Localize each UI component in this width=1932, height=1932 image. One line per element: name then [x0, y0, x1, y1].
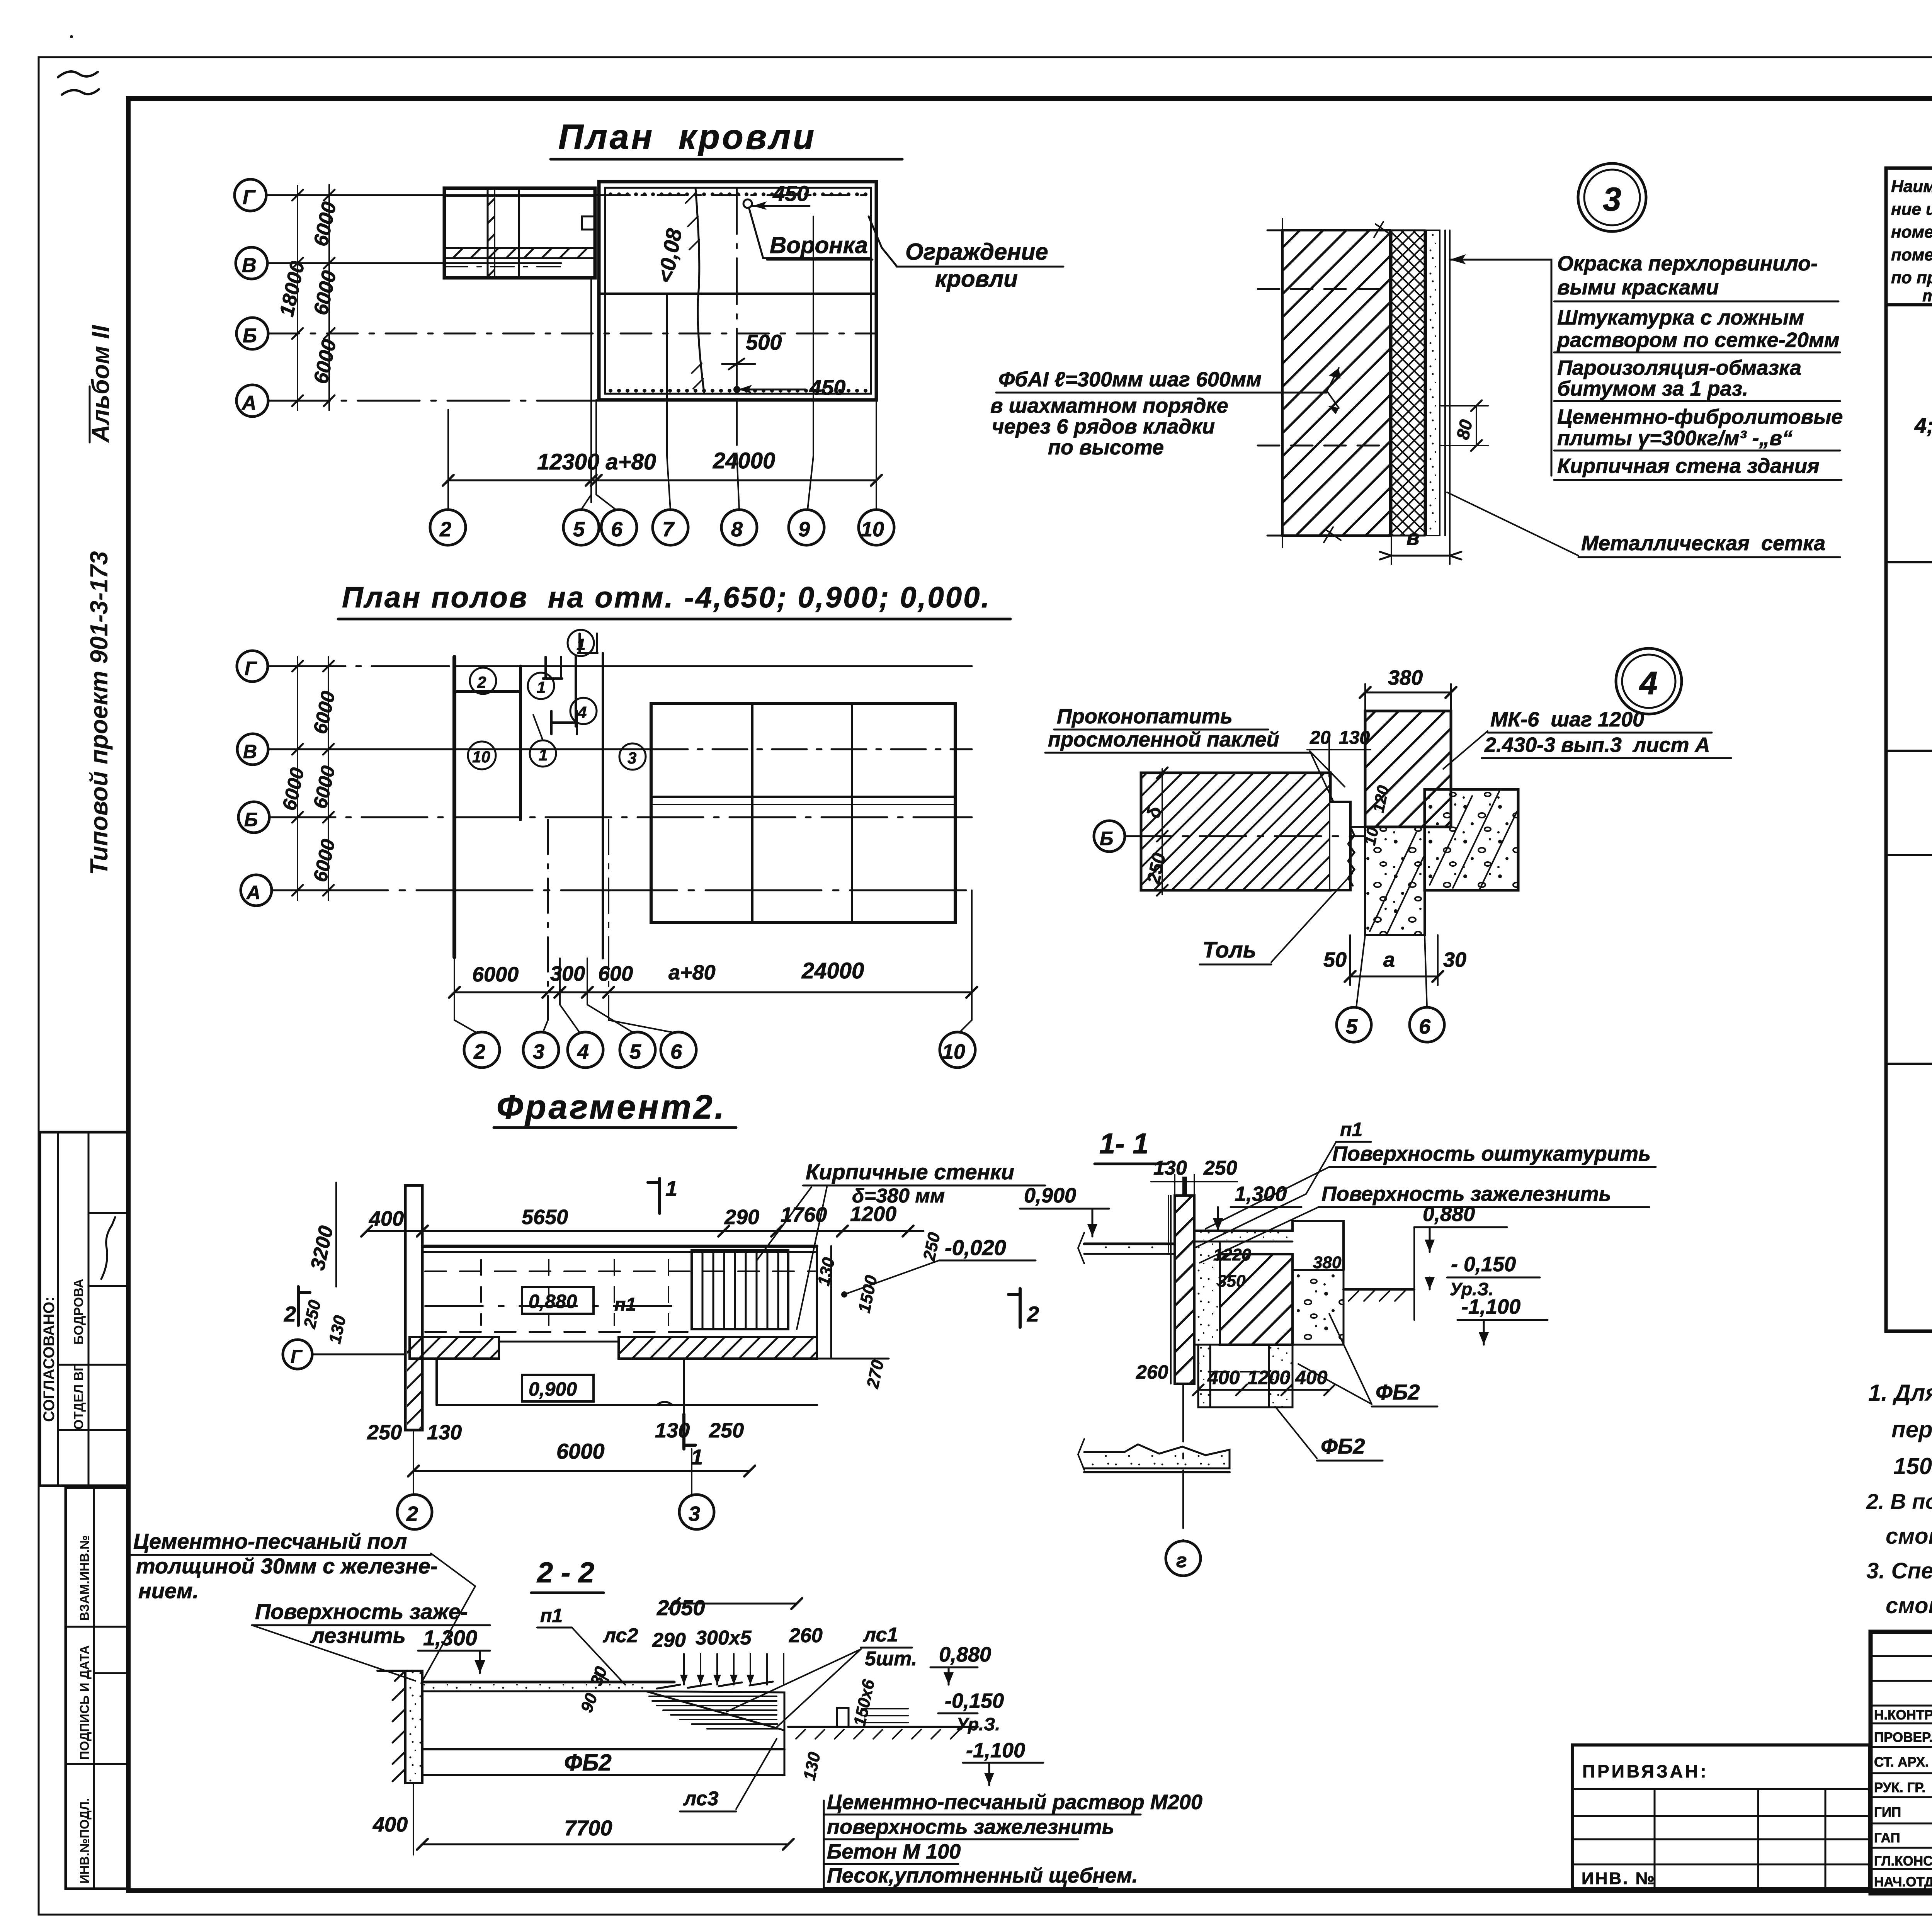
svg-text:2: 2	[477, 673, 486, 691]
svg-text:Ур.З.: Ур.З.	[956, 1714, 1000, 1734]
svg-text:130: 130	[427, 1421, 462, 1444]
svg-text:6000: 6000	[556, 1439, 605, 1463]
svg-text:лс2: лс2	[602, 1624, 638, 1647]
svg-text:ИНВ. №: ИНВ. №	[1582, 1869, 1656, 1888]
svg-text:30: 30	[1443, 948, 1466, 971]
svg-text:5650: 5650	[522, 1206, 568, 1229]
svg-text:Цементно-песчаный раствор М200: Цементно-песчаный раствор М200	[827, 1791, 1202, 1814]
svg-text:ГИП: ГИП	[1874, 1805, 1901, 1820]
svg-text:раствором по сетке-20мм: раствором по сетке-20мм	[1556, 328, 1840, 352]
svg-text:24000: 24000	[713, 448, 775, 473]
svg-text:7: 7	[662, 518, 675, 541]
caulk zigzag seam	[1348, 827, 1354, 886]
svg-text:1: 1	[537, 678, 546, 696]
svg-text:6000: 6000	[309, 837, 339, 884]
svg-text:6000: 6000	[310, 200, 341, 248]
section mark 1 top	[648, 1179, 660, 1213]
svg-text:Г: Г	[291, 1347, 303, 1367]
svg-text:-1,100: -1,100	[1461, 1295, 1520, 1318]
svg-text:Кирпичная стена здания: Кирпичная стена здания	[1557, 454, 1820, 478]
svg-text:поверхность зажелезнить: поверхность зажелезнить	[827, 1815, 1114, 1838]
svg-text:лс3: лс3	[683, 1787, 719, 1810]
center axis to circle г	[1182, 1384, 1184, 1541]
svg-text:2: 2	[439, 518, 451, 541]
axis circle В	[236, 247, 267, 279]
detail circle 3	[1578, 163, 1646, 231]
svg-text:1: 1	[665, 1176, 677, 1201]
axis leaders and circles 5 6	[1356, 935, 1365, 1007]
svg-text:<0,08: <0,08	[653, 226, 687, 285]
svg-text:δ=380 мм: δ=380 мм	[852, 1185, 945, 1207]
svg-text:260: 260	[1136, 1361, 1168, 1383]
dashed axis across slab	[1125, 835, 1365, 837]
svg-text:БОДРОВА: БОДРОВА	[71, 1279, 86, 1345]
small wall top piece	[1182, 1177, 1187, 1196]
axis dash line	[1282, 219, 1283, 547]
svg-text:Б: Б	[243, 325, 257, 347]
svg-text:ИНВ.№ПОДЛ.: ИНВ.№ПОДЛ.	[77, 1798, 92, 1884]
svg-text:Альбом II: Альбом II	[87, 325, 114, 443]
inner vertical wall	[519, 666, 522, 820]
svg-text:Металлическая сетка: Металлическая сетка	[1581, 532, 1825, 555]
svg-text:В: В	[243, 741, 257, 762]
role names	[1874, 1708, 1932, 1889]
brick wall hatched	[1282, 230, 1390, 536]
outer box	[1871, 1632, 1932, 1893]
annotation bracket	[1450, 260, 1551, 476]
ПРИВЯЗАН table	[1572, 1745, 1869, 1889]
svg-text:Пароизоляция-обмазка: Пароизоляция-обмазка	[1557, 356, 1801, 379]
stamp block СОГЛАСОВАНО	[40, 1132, 128, 1486]
svg-text:Ограждение: Ограждение	[905, 239, 1048, 265]
svg-text:6000: 6000	[310, 337, 341, 386]
svg-text:6000: 6000	[472, 963, 519, 986]
svg-text:в шахматном порядке: в шахматном порядке	[990, 394, 1228, 417]
svg-text:Цементно-песчаный пол: Цементно-песчаный пол	[133, 1529, 407, 1553]
axis line Б	[268, 333, 876, 335]
svg-text:2.430-3 вып.3 лист А: 2.430-3 вып.3 лист А	[1484, 733, 1710, 757]
svg-text:4: 4	[577, 703, 587, 721]
svg-text:250: 250	[920, 1231, 944, 1263]
circled numbers on plan	[470, 668, 496, 694]
inner corridor walls	[575, 657, 577, 726]
svg-text:ФбАI ℓ=300мм шаг 600мм: ФбАI ℓ=300мм шаг 600мм	[998, 368, 1262, 391]
svg-text:150 мм, шириной 1500мм в при: 150 мм, шириной 1500мм в пристройке межд…	[1893, 1453, 1932, 1479]
svg-text:0,880: 0,880	[939, 1643, 991, 1666]
brick pier hatched	[1220, 1254, 1293, 1345]
svg-text:нием.: нием.	[138, 1578, 199, 1603]
svg-text:Толь: Толь	[1202, 937, 1256, 963]
svg-text:5: 5	[629, 1040, 641, 1063]
svg-text:Поверхность заже-: Поверхность заже-	[255, 1599, 468, 1624]
svg-text:130: 130	[1153, 1157, 1187, 1179]
svg-text:В: В	[242, 254, 257, 277]
svg-text:3: 3	[533, 1040, 544, 1063]
axis circle А	[241, 875, 272, 906]
svg-text:а: а	[1383, 948, 1395, 971]
foundation legs	[1198, 1345, 1210, 1407]
svg-text:Б: Б	[1100, 828, 1113, 849]
svg-text:8: 8	[731, 518, 743, 541]
axis circle Г	[235, 179, 266, 211]
svg-text:2: 2	[406, 1502, 418, 1526]
wall hatched	[1175, 1196, 1194, 1384]
svg-text:2 - 2: 2 - 2	[536, 1556, 594, 1588]
svg-text:1: 1	[691, 1445, 703, 1469]
floor slab	[422, 1681, 674, 1684]
svg-text:6: 6	[611, 518, 623, 541]
right ground line	[788, 1726, 978, 1728]
left dim verticals	[297, 657, 298, 900]
svg-text:250: 250	[300, 1298, 325, 1330]
axis circle Б	[238, 802, 269, 833]
svg-text:300: 300	[550, 962, 585, 985]
axis line А	[268, 400, 876, 402]
left floor	[1084, 1243, 1175, 1245]
svg-text:3: 3	[689, 1502, 700, 1526]
svg-text:2: 2	[473, 1040, 485, 1063]
svg-text:Песок,уплотненный щебнем.: Песок,уплотненный щебнем.	[827, 1864, 1138, 1887]
svg-text:1,300: 1,300	[1235, 1182, 1287, 1206]
svg-text:4: 4	[1639, 665, 1658, 701]
svg-text:5: 5	[573, 518, 585, 541]
signature squiggle	[101, 1217, 115, 1279]
svg-text:просмоленной паклей: просмоленной паклей	[1048, 728, 1279, 751]
left main wall	[452, 657, 456, 957]
axis line В	[267, 262, 561, 264]
svg-text:6: 6	[1419, 1015, 1431, 1038]
small ledge on left block	[582, 216, 595, 230]
ridge line	[599, 293, 876, 295]
lower column concrete	[1365, 827, 1425, 935]
svg-text:ПРИВЯЗАН:: ПРИВЯЗАН:	[1582, 1761, 1709, 1781]
svg-text:ФБ2: ФБ2	[1321, 1434, 1365, 1458]
svg-text:24000: 24000	[801, 958, 864, 983]
svg-text:лезнить: лезнить	[310, 1623, 406, 1648]
svg-text:2: 2	[1027, 1302, 1039, 1326]
svg-text:0,900: 0,900	[529, 1378, 577, 1400]
axis circle В	[237, 734, 268, 765]
svg-text:5: 5	[1346, 1015, 1358, 1038]
svg-text:Н.КОНТР.: Н.КОНТР.	[1874, 1708, 1932, 1723]
svg-text:ние или: ние или	[1891, 200, 1932, 219]
top wall strip hatched	[1365, 711, 1451, 827]
svg-text:Фрагмент2.: Фрагмент2.	[497, 1088, 726, 1126]
svg-text:номер: номер	[1891, 223, 1932, 241]
svg-text:смотреть на листе АС-7.: смотреть на листе АС-7.	[1886, 1593, 1932, 1618]
svg-text:0,900: 0,900	[1024, 1184, 1076, 1207]
tick row for steps	[684, 1654, 784, 1685]
svg-text:400: 400	[369, 1207, 404, 1230]
svg-text:9: 9	[798, 518, 810, 541]
svg-text:250: 250	[1203, 1157, 1237, 1179]
svg-text:битумом за 1 раз.: битумом за 1 раз.	[1557, 377, 1748, 400]
axis circle Б	[236, 318, 268, 349]
axis circle Г	[283, 1340, 312, 1369]
svg-text:0,880: 0,880	[1423, 1202, 1475, 1226]
ticks on dim verticals	[292, 190, 303, 406]
80 dim	[1476, 406, 1477, 446]
svg-text:3200: 3200	[306, 1224, 338, 1272]
svg-text:12300 а+80: 12300 а+80	[537, 449, 656, 474]
svg-text:50: 50	[1323, 948, 1347, 971]
svg-text:1500: 1500	[855, 1274, 881, 1315]
svg-text:ПРОВЕР.: ПРОВЕР.	[1874, 1730, 1932, 1745]
bottom footing	[1084, 1444, 1230, 1468]
left wall of fragment	[405, 1185, 422, 1430]
left rows	[1871, 1655, 1932, 1657]
svg-text:п1: п1	[614, 1294, 636, 1315]
svg-text:450: 450	[809, 375, 845, 400]
svg-text:500: 500	[746, 330, 782, 354]
left block inner walls	[487, 188, 489, 278]
axis lines	[268, 665, 454, 667]
svg-text:плиты γ=300кг/м³ -„в“: плиты γ=300кг/м³ -„в“	[1557, 427, 1793, 450]
3200 dim	[335, 1182, 337, 1287]
svg-text:6: 6	[670, 1040, 682, 1063]
svg-text:2. В помещениях насосного отде: 2. В помещениях насосного отделения и ос…	[1866, 1489, 1932, 1514]
svg-text:Цементно-фибролитовые: Цементно-фибролитовые	[1557, 405, 1843, 429]
dashed ties in wall	[1258, 288, 1391, 290]
floor hatched band	[410, 1337, 499, 1359]
svg-text:кровли: кровли	[935, 266, 1018, 292]
svg-text:РУК. ГР.: РУК. ГР.	[1874, 1780, 1925, 1795]
dim 450 top	[753, 205, 810, 207]
top dim line	[367, 1230, 923, 1232]
svg-text:6000: 6000	[310, 269, 341, 317]
delta and 250 rotated dims	[1162, 769, 1163, 895]
axis line Г	[266, 194, 603, 196]
svg-text:помещения: помещения	[1891, 245, 1932, 264]
svg-text:НАЧ.ОТД: НАЧ.ОТД	[1874, 1874, 1932, 1889]
top wall segment	[454, 690, 520, 693]
svg-text:ОТДЕЛ ВГ: ОТДЕЛ ВГ	[71, 1364, 86, 1430]
svg-text:толщиной 30мм с железне-: толщиной 30мм с железне-	[136, 1554, 437, 1578]
dashed underground part	[1293, 1289, 1344, 1345]
ФБ2 beam	[422, 1748, 784, 1750]
dim 450 bottom	[738, 389, 806, 391]
svg-text:Штукатурка с ложным: Штукатурка с ложным	[1557, 306, 1804, 329]
svg-text:выми красками: выми красками	[1557, 276, 1719, 299]
svg-text:п1: п1	[540, 1605, 563, 1626]
svg-text:1- 1: 1- 1	[1099, 1128, 1149, 1160]
svg-text:ФБ2: ФБ2	[1376, 1380, 1420, 1404]
svg-text:400: 400	[1207, 1367, 1240, 1388]
parapet dot rows	[609, 192, 867, 393]
svg-text:1200: 1200	[1247, 1367, 1290, 1388]
svg-text:-1,100: -1,100	[966, 1739, 1025, 1762]
dim verticals 18000 / 6000	[297, 185, 298, 410]
svg-text:а+80: а+80	[668, 961, 716, 984]
svg-text:380: 380	[1388, 666, 1423, 689]
svg-text:смотреть уклоны полов в соо: смотреть уклоны полов в соответствии с ч…	[1886, 1524, 1932, 1549]
axis circle Б	[1094, 821, 1125, 852]
svg-text:270: 270	[863, 1358, 888, 1390]
svg-text:Типовой проект 901-3-173: Типовой проект 901-3-173	[85, 551, 113, 875]
bottom axis circles	[430, 510, 466, 545]
svg-text:Г: Г	[245, 658, 257, 679]
stepped ramp wedge	[646, 1691, 784, 1730]
plaster dotted strip	[1426, 230, 1440, 536]
svg-text:10: 10	[1361, 825, 1382, 847]
top/bottom edge ticks	[1267, 230, 1399, 536]
svg-text:г: г	[1176, 1549, 1187, 1572]
svg-text:3: 3	[628, 749, 636, 767]
svg-text:1. Для утепления пола с Внутре: 1. Для утепления пола с Внутренней сторо…	[1868, 1380, 1932, 1406]
svg-text:Наименова: Наименова	[1891, 177, 1932, 196]
svg-text:Поверхность оштукатурить: Поверхность оштукатурить	[1332, 1142, 1651, 1165]
svg-text:ПОДПИСЬ И ДАТА: ПОДПИСЬ И ДАТА	[77, 1645, 92, 1760]
svg-text:ту: ту	[1922, 286, 1932, 305]
svg-text:Окраска перхлорвинило-: Окраска перхлорвинило-	[1557, 252, 1818, 275]
svg-text:400: 400	[372, 1813, 408, 1836]
svg-text:МК-6 шаг 1200: МК-6 шаг 1200	[1490, 708, 1644, 731]
svg-text:450: 450	[772, 181, 809, 206]
section mark 1 bottom	[684, 1414, 696, 1449]
svg-text:План полов на отм. -4,650; 0,: План полов на отм. -4,650; 0,900; 0,000.	[342, 581, 991, 614]
svg-text:Бетон М 100: Бетон М 100	[827, 1840, 961, 1863]
svg-text:ГЛ.КОНСТР: ГЛ.КОНСТР	[1874, 1854, 1932, 1869]
small inner partitions	[551, 711, 577, 734]
section mark 2 left	[298, 1287, 310, 1325]
svg-text:п1: п1	[1340, 1119, 1362, 1140]
svg-text:130: 130	[800, 1750, 824, 1782]
svg-text:290: 290	[724, 1206, 759, 1229]
svg-text:в: в	[1406, 525, 1420, 549]
right upper floor 0,880	[1194, 1221, 1344, 1270]
svg-text:ВЗАМ.ИНВ.№: ВЗАМ.ИНВ.№	[77, 1535, 92, 1621]
7700 dim	[422, 1844, 788, 1845]
svg-text:через 6 рядов кладки: через 6 рядов кладки	[992, 415, 1215, 438]
svg-text:10: 10	[472, 748, 490, 766]
svg-text:2: 2	[284, 1302, 296, 1326]
roof slope line	[696, 188, 704, 392]
svg-text:1: 1	[577, 635, 585, 653]
svg-text:150х6: 150х6	[850, 1678, 878, 1728]
svg-text:1,300: 1,300	[423, 1626, 477, 1650]
door jamb marks top	[546, 634, 597, 679]
leader from circle 1 mid	[533, 715, 543, 740]
svg-text:Кирпичные стенки: Кирпичные стенки	[806, 1160, 1014, 1184]
svg-text:4;5;3: 4;5;3	[1914, 413, 1932, 437]
bottom circles 2 and 3	[413, 1430, 414, 1495]
bottom dim line	[454, 992, 972, 993]
axis circle Г	[237, 651, 268, 682]
svg-text:290: 290	[652, 1629, 686, 1651]
svg-text:80: 80	[1452, 418, 1476, 441]
svg-text:6000: 6000	[309, 689, 339, 736]
lower slab	[435, 1359, 438, 1405]
railing / ladder	[692, 1250, 788, 1329]
svg-text:-0,020: -0,020	[945, 1235, 1006, 1260]
svg-text:Проконопатить: Проконопатить	[1057, 705, 1233, 728]
concrete surround	[1293, 1270, 1344, 1345]
axis circle А	[236, 385, 268, 417]
svg-text:300х5: 300х5	[696, 1627, 752, 1649]
svg-text:3. Спецификацию на ступени, п: 3. Спецификацию на ступени, плиты и фунд…	[1866, 1558, 1932, 1583]
building: left block	[444, 188, 595, 278]
svg-text:Б: Б	[244, 809, 258, 830]
bottom dim 6000	[413, 1470, 750, 1472]
building: right block outer	[599, 182, 876, 400]
hatched band in left block	[444, 248, 595, 258]
table grid	[1886, 168, 1932, 1331]
svg-text:250: 250	[367, 1421, 402, 1444]
funnel Воронка	[743, 199, 752, 208]
svg-text:СТ. АРХ.: СТ. АРХ.	[1874, 1755, 1929, 1770]
svg-text:7700: 7700	[564, 1816, 612, 1840]
svg-text:А: А	[241, 392, 257, 414]
svg-text:периметру предусмотреть засы: периметру предусмотреть засыпку керамзит…	[1891, 1417, 1932, 1442]
svg-text:6000: 6000	[309, 764, 339, 811]
svg-text:План кровли: План кровли	[558, 118, 816, 156]
svg-text:-0,150: -0,150	[945, 1689, 1004, 1713]
bottom dimension line	[448, 480, 876, 481]
svg-text:А: А	[246, 882, 260, 903]
main slab outline	[422, 1245, 817, 1248]
svg-text:260: 260	[789, 1624, 823, 1647]
svg-text:лс1: лс1	[862, 1624, 898, 1646]
svg-text:600: 600	[598, 962, 633, 985]
left slab hatched	[1141, 773, 1330, 890]
svg-text:10: 10	[861, 518, 884, 541]
svg-text:3: 3	[1603, 181, 1621, 218]
svg-text:по высоте: по высоте	[1048, 436, 1164, 459]
svg-text:6000: 6000	[278, 766, 308, 813]
svg-text:- 0,150: - 0,150	[1451, 1253, 1516, 1276]
svg-text:ГАП: ГАП	[1874, 1830, 1900, 1845]
svg-text:СОГЛАСОВАНО:: СОГЛАСОВАНО:	[41, 1296, 58, 1422]
svg-text:250: 250	[709, 1419, 744, 1442]
detail circle 4	[1616, 648, 1682, 714]
corner handwritten mark	[58, 71, 99, 95]
svg-text:5шт.: 5шт.	[865, 1648, 917, 1670]
svg-text:10: 10	[942, 1040, 965, 1063]
svg-text:2050: 2050	[656, 1595, 705, 1620]
svg-text:130: 130	[655, 1419, 690, 1442]
svg-text:Г: Г	[243, 186, 256, 209]
section mark 2 right	[1009, 1289, 1020, 1327]
grid box right	[651, 704, 955, 923]
svg-text:0,880: 0,880	[529, 1291, 577, 1312]
svg-text:Воронка: Воронка	[770, 232, 868, 258]
svg-text:130: 130	[1339, 728, 1370, 748]
0,880 box	[522, 1287, 594, 1314]
svg-text:130: 130	[325, 1314, 350, 1346]
svg-text:по проек-: по проек-	[1891, 268, 1932, 287]
left retaining wall	[405, 1671, 422, 1783]
svg-text:4: 4	[577, 1040, 589, 1063]
fibrolite cross-hatch strip	[1391, 230, 1425, 536]
inner axis verticals	[666, 294, 668, 456]
svg-text:ФБ2: ФБ2	[564, 1750, 612, 1776]
right slab concrete	[1425, 789, 1518, 890]
svg-text:Поверхность зажелезнить: Поверхность зажелезнить	[1321, 1182, 1611, 1206]
svg-text:1: 1	[539, 746, 548, 764]
outer render lines	[1444, 230, 1446, 536]
right wall lines	[816, 1246, 818, 1359]
bottom axis circles	[464, 1032, 500, 1068]
dashed inner grid	[425, 1270, 815, 1272]
svg-text:20: 20	[1310, 728, 1331, 748]
ground line right	[1344, 1288, 1414, 1291]
lower strip ВЗАМ/ПОДПИСЬ/ИНВ	[66, 1488, 128, 1889]
leaders to circles	[454, 1005, 972, 1032]
